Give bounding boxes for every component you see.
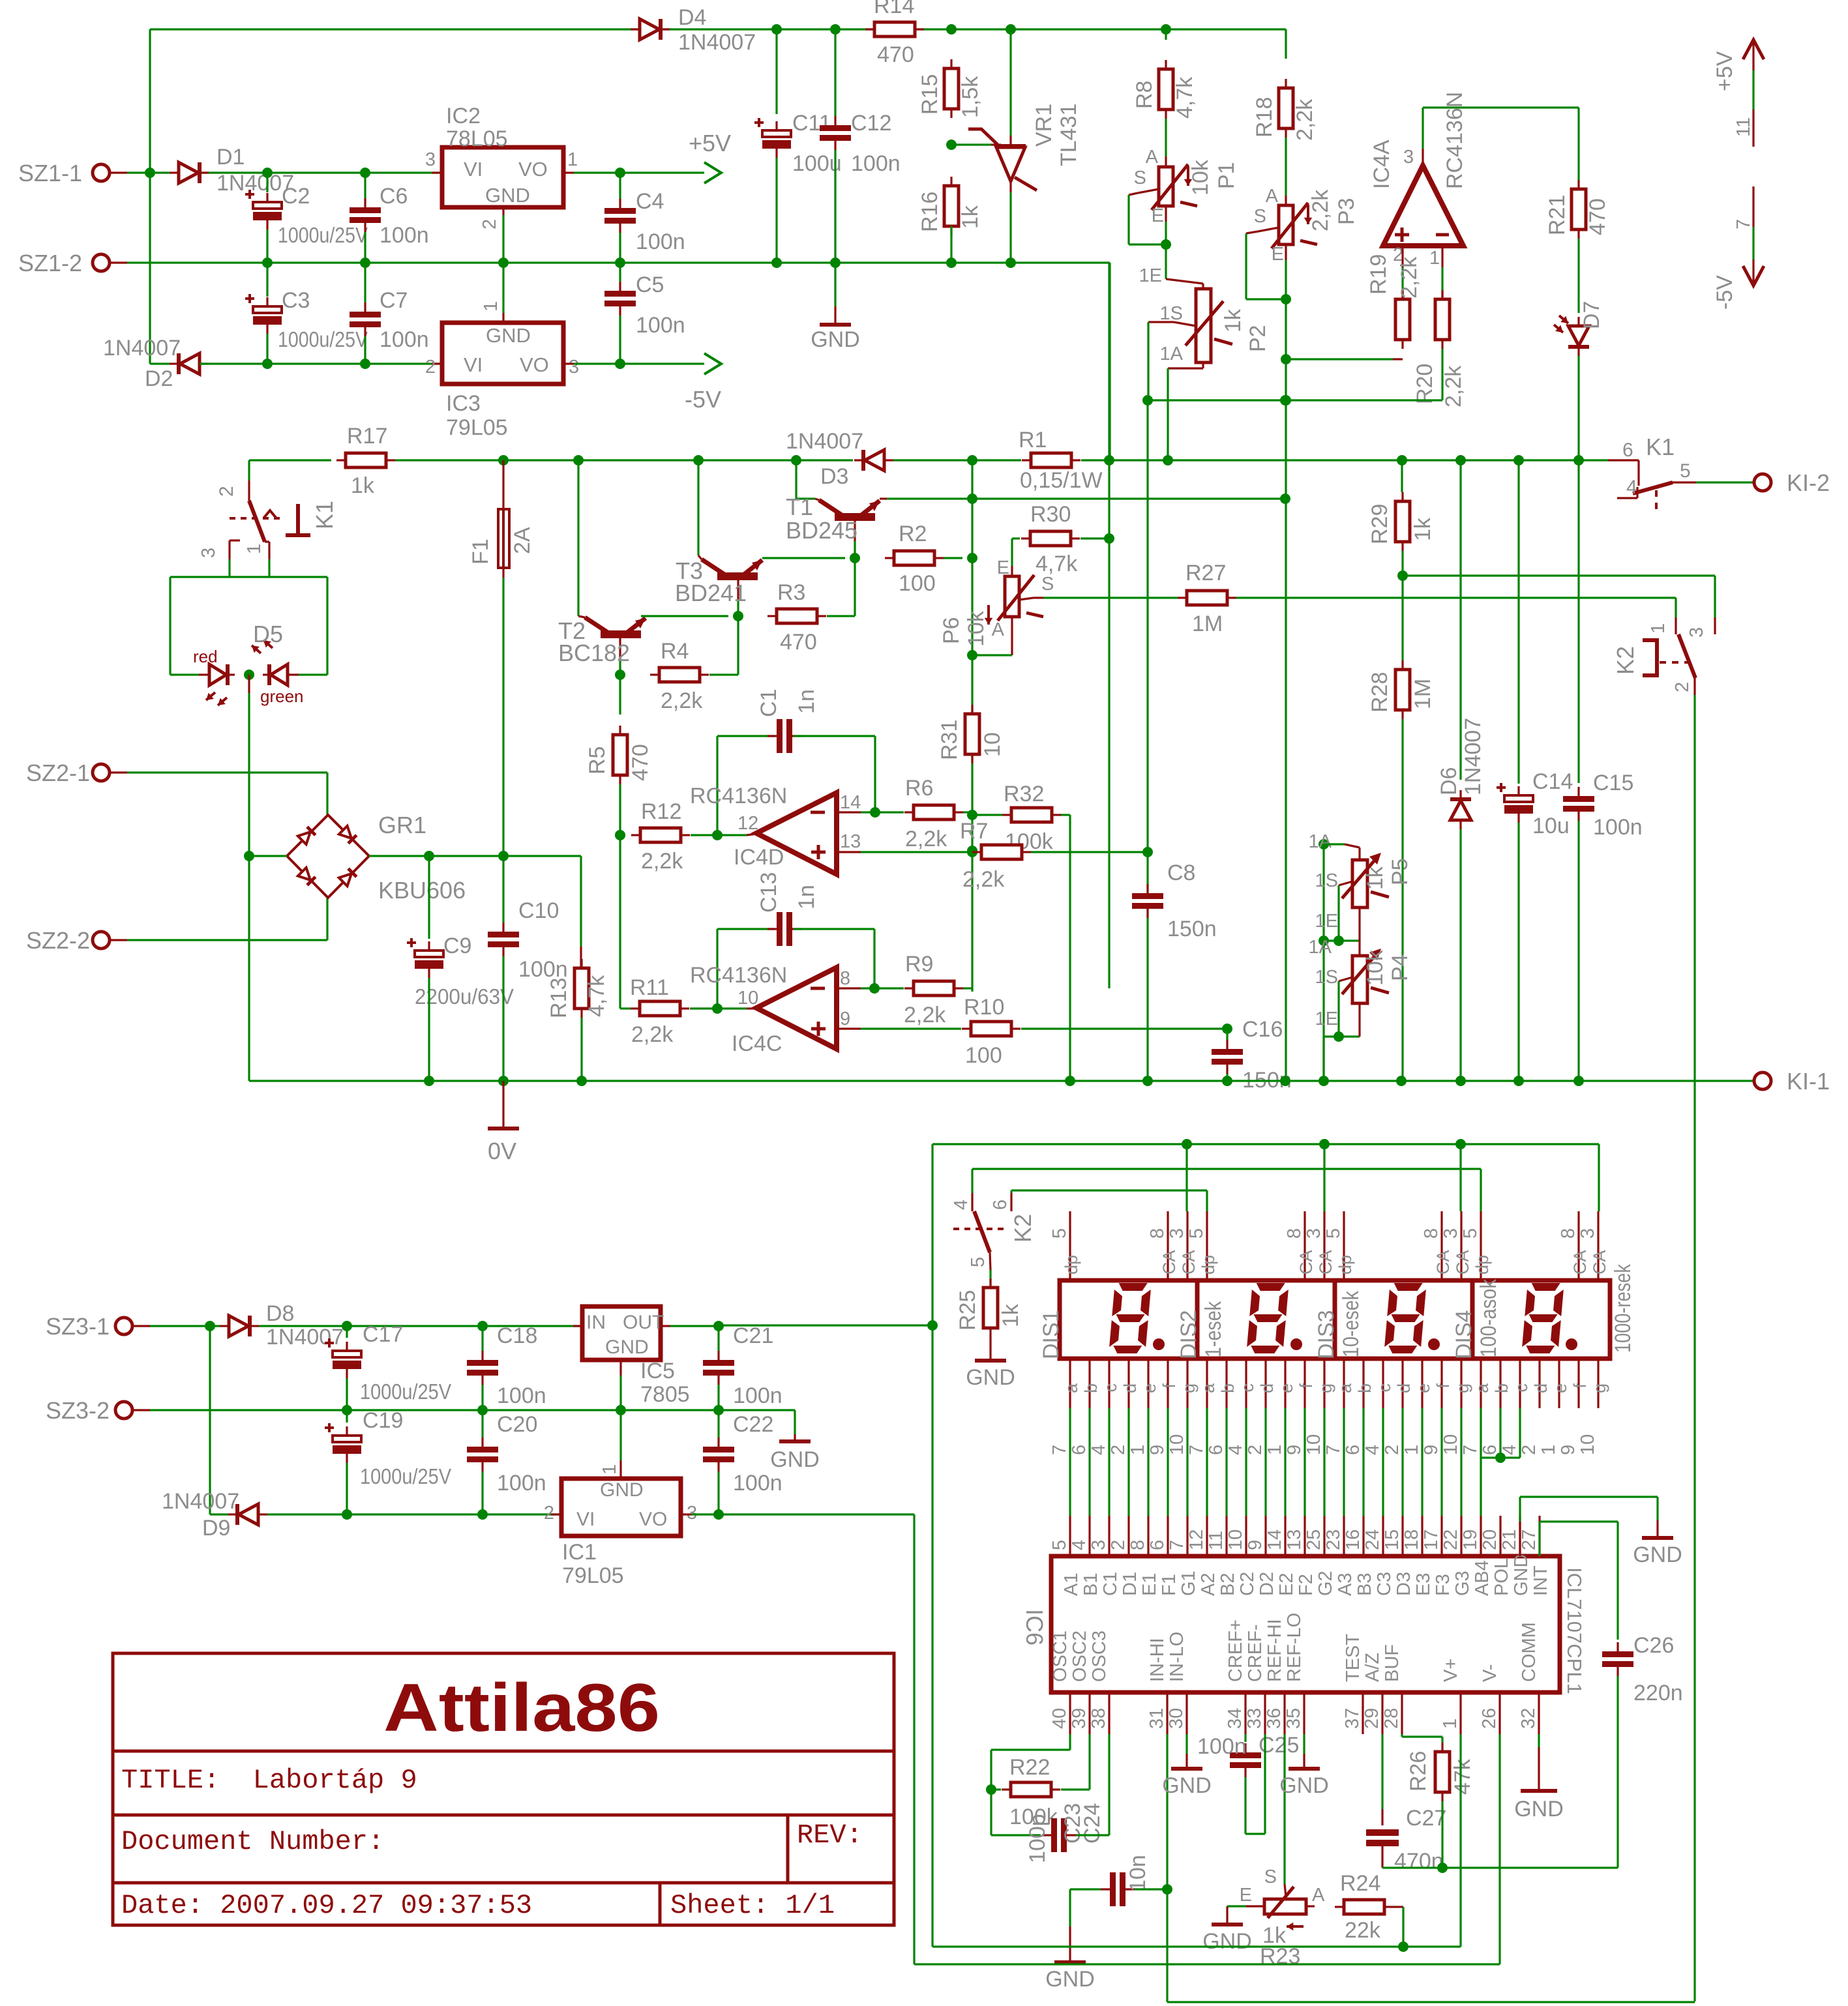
op-amp IC4A RC4136N bbox=[1383, 166, 1463, 246]
svg-text:2: 2 bbox=[425, 357, 436, 377]
wire bbox=[690, 1007, 747, 1009]
svg-text:22: 22 bbox=[1440, 1529, 1461, 1550]
svg-text:1: 1 bbox=[1538, 1445, 1559, 1455]
wire bbox=[620, 362, 704, 364]
svg-text:T1: T1 bbox=[786, 494, 813, 520]
wire bbox=[795, 460, 797, 499]
svg-text:30: 30 bbox=[1166, 1708, 1187, 1729]
capacitor C5 bbox=[604, 291, 636, 306]
junction bbox=[615, 168, 625, 178]
wire bbox=[1441, 349, 1443, 400]
wire bbox=[1236, 597, 1676, 598]
wire bbox=[1135, 1888, 1167, 1890]
svg-text:Attila86: Attila86 bbox=[383, 1670, 660, 1746]
wire bbox=[972, 654, 1012, 656]
wire bbox=[1401, 1734, 1403, 1737]
svg-text:R26: R26 bbox=[1406, 1751, 1431, 1792]
wire bbox=[502, 856, 504, 922]
svg-text:IC4A: IC4A bbox=[1369, 140, 1394, 189]
svg-text:IC4D: IC4D bbox=[734, 845, 784, 870]
svg-text:C21: C21 bbox=[733, 1323, 773, 1348]
junction bbox=[712, 830, 723, 840]
wire bbox=[1402, 1735, 1442, 1737]
svg-text:e: e bbox=[1551, 1383, 1570, 1393]
svg-text:E2: E2 bbox=[1276, 1573, 1297, 1596]
svg-text:1N4007: 1N4007 bbox=[678, 30, 756, 55]
svg-text:3: 3 bbox=[198, 548, 219, 558]
wire bbox=[127, 171, 170, 173]
svg-text:100n: 100n bbox=[851, 151, 901, 176]
capacitor C11 bbox=[762, 130, 791, 137]
svg-text:2,2k: 2,2k bbox=[904, 1003, 946, 1027]
wire bbox=[972, 1168, 1481, 1170]
resistor R1 bbox=[1031, 453, 1071, 467]
potentiometer R23 1k bbox=[1264, 1899, 1306, 1914]
wire bbox=[170, 673, 199, 675]
svg-text:C1: C1 bbox=[756, 689, 781, 717]
svg-text:R5: R5 bbox=[585, 746, 610, 774]
pin e 1 DIS1 bbox=[1147, 1359, 1149, 1408]
svg-text:2,2k: 2,2k bbox=[1441, 365, 1466, 407]
wire bbox=[428, 856, 430, 939]
diode D1 bbox=[179, 162, 198, 183]
+5V arrow bbox=[704, 162, 721, 183]
wire bbox=[1167, 368, 1169, 460]
junction bbox=[967, 494, 977, 504]
svg-text:1: 1 bbox=[567, 149, 578, 170]
svg-text:1E: 1E bbox=[1139, 265, 1162, 286]
junction bbox=[946, 140, 957, 150]
svg-text:1: 1 bbox=[1440, 1718, 1461, 1729]
svg-text:26: 26 bbox=[1479, 1708, 1500, 1729]
wire bbox=[481, 1410, 483, 1438]
svg-text:DIS1: DIS1 bbox=[1039, 1310, 1064, 1359]
wire bbox=[1108, 263, 1110, 988]
resistor R4 bbox=[659, 668, 700, 682]
resistor R7 bbox=[981, 845, 1022, 859]
svg-text:R22: R22 bbox=[1009, 1755, 1050, 1780]
wire bbox=[762, 557, 845, 559]
0V ground symbol bbox=[502, 1081, 504, 1127]
wire bbox=[1459, 1734, 1461, 1947]
wire bbox=[502, 263, 504, 313]
bridge rectifier GR1 KBU606 bbox=[287, 815, 369, 898]
svg-text:A1: A1 bbox=[1061, 1573, 1082, 1596]
svg-text:1: 1 bbox=[599, 1464, 620, 1475]
wire bbox=[169, 577, 171, 675]
capacitor C24 bbox=[1110, 1872, 1125, 1906]
svg-text:g: g bbox=[1590, 1383, 1609, 1393]
svg-text:9: 9 bbox=[1421, 1445, 1442, 1455]
wire bbox=[266, 334, 268, 364]
wire bbox=[1401, 576, 1403, 660]
svg-text:1S: 1S bbox=[1315, 967, 1338, 988]
svg-text:S: S bbox=[1041, 574, 1054, 595]
svg-text:4: 4 bbox=[1362, 1445, 1383, 1455]
wire bbox=[1147, 322, 1149, 400]
pin 30 IN-LO IC6 bbox=[1185, 1692, 1187, 1734]
capacitor C2 bbox=[253, 202, 282, 209]
svg-text:R15: R15 bbox=[917, 74, 942, 115]
wire bbox=[1069, 1889, 1071, 1926]
junction bbox=[1281, 294, 1291, 304]
svg-text:Document Number:: Document Number: bbox=[121, 1826, 384, 1857]
wire bbox=[481, 1326, 483, 1351]
resistor R19 bbox=[1395, 299, 1410, 340]
junction bbox=[342, 1321, 352, 1331]
pin 3 IC6 bbox=[1108, 1516, 1110, 1556]
junction bbox=[244, 851, 254, 861]
svg-text:1N4007: 1N4007 bbox=[103, 336, 181, 361]
svg-text:g: g bbox=[1453, 1383, 1472, 1393]
wire bbox=[1337, 885, 1339, 941]
wire bbox=[620, 171, 704, 173]
pin 9 IC6 bbox=[1264, 1516, 1266, 1556]
svg-text:8: 8 bbox=[1147, 1228, 1168, 1239]
resistor R12 bbox=[640, 828, 681, 842]
resistor R6 bbox=[914, 805, 954, 819]
wire bbox=[619, 173, 621, 199]
svg-text:40: 40 bbox=[1049, 1708, 1070, 1729]
junction bbox=[967, 810, 977, 820]
pin 28 BUF IC6 bbox=[1401, 1692, 1403, 1734]
resistor R30 bbox=[1030, 531, 1071, 546]
wire bbox=[1402, 1907, 1404, 1947]
resistor R21 bbox=[1572, 189, 1586, 229]
svg-text:c: c bbox=[1512, 1383, 1531, 1393]
wire bbox=[971, 812, 973, 817]
wire bbox=[717, 1385, 719, 1410]
svg-text:IC6: IC6 bbox=[1021, 1609, 1048, 1645]
terminal KI-1 bbox=[1754, 1072, 1771, 1089]
svg-text:VO: VO bbox=[520, 353, 549, 376]
svg-text:d: d bbox=[1531, 1383, 1551, 1393]
wire bbox=[481, 1385, 483, 1410]
svg-text:AB4: AB4 bbox=[1472, 1560, 1493, 1596]
svg-text:C20: C20 bbox=[497, 1412, 537, 1437]
pin dp 5 DIS2 bbox=[1206, 1211, 1208, 1280]
junction bbox=[498, 851, 509, 861]
svg-text:2,2k: 2,2k bbox=[641, 849, 683, 874]
svg-text:1000u/25V: 1000u/25V bbox=[278, 223, 368, 247]
svg-text:a: a bbox=[1062, 1383, 1081, 1393]
wire bbox=[1577, 356, 1579, 460]
svg-text:S: S bbox=[1134, 168, 1146, 188]
svg-text:1N4007: 1N4007 bbox=[162, 1489, 239, 1514]
diode D2 bbox=[180, 353, 200, 374]
wire bbox=[619, 675, 621, 715]
svg-text:BD241: BD241 bbox=[675, 580, 747, 606]
capacitor C17 bbox=[333, 1351, 361, 1357]
svg-text:DIS2: DIS2 bbox=[1176, 1310, 1201, 1359]
svg-text:K2: K2 bbox=[1612, 646, 1639, 675]
svg-text:G1: G1 bbox=[1178, 1571, 1199, 1596]
pin f 9 DIS4 bbox=[1577, 1359, 1579, 1408]
wire bbox=[170, 576, 327, 578]
7-segment display DIS4 bbox=[1472, 1280, 1610, 1359]
ground GND C12 bbox=[834, 306, 836, 323]
svg-text:OUT: OUT bbox=[623, 1312, 664, 1333]
svg-text:D1: D1 bbox=[216, 145, 245, 170]
pin CA 8 DIS4 bbox=[1577, 1211, 1579, 1280]
wire seg bbox=[1245, 1408, 1247, 1516]
svg-text:A/Z: A/Z bbox=[1362, 1653, 1383, 1682]
wire seg bbox=[1421, 1408, 1423, 1516]
svg-text:d: d bbox=[1394, 1383, 1414, 1393]
svg-text:9: 9 bbox=[1558, 1445, 1579, 1455]
wire seg bbox=[1382, 1408, 1384, 1516]
wire bbox=[267, 1513, 561, 1515]
pin 38 OSC3 IC6 bbox=[1108, 1692, 1110, 1734]
resistor R3 bbox=[777, 609, 817, 623]
pin 37 TEST IC6 bbox=[1362, 1692, 1364, 1734]
svg-text:11: 11 bbox=[1733, 117, 1754, 137]
pin 36 REF-HI IC6 bbox=[1283, 1692, 1285, 1734]
svg-text:GND: GND bbox=[1045, 1967, 1095, 1992]
wire bbox=[1127, 195, 1129, 244]
wire bbox=[1246, 298, 1286, 300]
svg-text:2,2k: 2,2k bbox=[905, 827, 947, 851]
wire bbox=[1714, 576, 1716, 617]
capacitor C15 bbox=[1563, 796, 1594, 812]
junction bbox=[1142, 847, 1153, 857]
junction bbox=[713, 1509, 724, 1520]
junction bbox=[1319, 1076, 1329, 1086]
wire bbox=[326, 577, 328, 675]
svg-text:-5V: -5V bbox=[685, 386, 721, 413]
wire bbox=[346, 1326, 348, 1338]
svg-text:S: S bbox=[1264, 1866, 1277, 1887]
svg-text:4,7k: 4,7k bbox=[1172, 76, 1197, 119]
svg-text:9: 9 bbox=[1284, 1445, 1305, 1455]
wire bbox=[709, 673, 728, 675]
svg-text:D1: D1 bbox=[1120, 1572, 1140, 1596]
junction bbox=[1222, 1024, 1232, 1034]
pin 29 A/Z IC6 bbox=[1381, 1692, 1383, 1734]
svg-text:5: 5 bbox=[1460, 1228, 1481, 1239]
svg-text:3: 3 bbox=[1167, 1228, 1187, 1239]
junction bbox=[615, 830, 625, 840]
ground GND C24 bbox=[1069, 1926, 1071, 1961]
wire bbox=[1441, 267, 1443, 292]
wire bbox=[1185, 1734, 1187, 1754]
svg-text:P2: P2 bbox=[1245, 325, 1270, 352]
junction bbox=[1455, 1076, 1466, 1086]
wire bbox=[266, 173, 268, 192]
terminal SZ1-1 bbox=[93, 164, 110, 181]
wire bbox=[991, 1748, 1070, 1750]
resistor R11 bbox=[640, 1001, 680, 1016]
wire bbox=[619, 316, 621, 364]
svg-text:470: 470 bbox=[877, 42, 914, 67]
pin d 2 DIS4 bbox=[1538, 1359, 1540, 1408]
pin e 1 DIS2 bbox=[1284, 1359, 1286, 1408]
wire bbox=[991, 1834, 1041, 1836]
voltage regulator IC1 79L05 bbox=[561, 1479, 681, 1536]
svg-text:R6: R6 bbox=[905, 776, 933, 801]
svg-text:10: 10 bbox=[1577, 1434, 1598, 1455]
svg-text:KI-1: KI-1 bbox=[1787, 1068, 1830, 1095]
svg-text:+5V: +5V bbox=[689, 130, 731, 156]
svg-text:R30: R30 bbox=[1030, 502, 1071, 527]
wire bbox=[346, 1410, 348, 1423]
svg-text:f: f bbox=[1433, 1383, 1453, 1389]
wire bbox=[716, 929, 718, 1009]
svg-text:2,2k: 2,2k bbox=[1397, 256, 1422, 299]
svg-text:VI: VI bbox=[464, 353, 483, 376]
junction bbox=[1161, 239, 1171, 250]
svg-text:TITLE: Labortáp 9: TITLE: Labortáp 9 bbox=[121, 1765, 417, 1796]
svg-text:dp: dp bbox=[1335, 1255, 1355, 1275]
junction bbox=[946, 258, 957, 268]
svg-text:GND: GND bbox=[1162, 1773, 1212, 1798]
junction bbox=[850, 553, 860, 563]
svg-text:10n: 10n bbox=[1125, 1855, 1150, 1892]
svg-text:GR1: GR1 bbox=[378, 812, 426, 838]
svg-text:TEST: TEST bbox=[1343, 1634, 1364, 1682]
wire bbox=[1244, 1734, 1246, 1742]
wire bbox=[1459, 829, 1461, 1081]
wire bbox=[991, 1788, 1001, 1790]
pin 39 OSC2 IC6 bbox=[1088, 1692, 1090, 1734]
capacitor C6 bbox=[350, 207, 381, 223]
svg-text:P4: P4 bbox=[1388, 954, 1412, 981]
svg-text:IC4C: IC4C bbox=[732, 1031, 782, 1056]
svg-text:DIS4: DIS4 bbox=[1452, 1310, 1476, 1359]
pin 15 IC6 bbox=[1401, 1516, 1403, 1556]
junction bbox=[262, 359, 273, 369]
wire bbox=[796, 497, 815, 499]
svg-text:b: b bbox=[1492, 1383, 1512, 1393]
svg-text:OSC2: OSC2 bbox=[1069, 1630, 1090, 1682]
svg-text:31: 31 bbox=[1146, 1708, 1167, 1729]
svg-text:7: 7 bbox=[1186, 1445, 1207, 1455]
svg-text:6: 6 bbox=[1622, 439, 1633, 461]
svg-text:S: S bbox=[1254, 206, 1266, 227]
junction bbox=[1334, 1031, 1344, 1042]
op-amp IC4C RC4136N bbox=[756, 967, 837, 1049]
svg-text:C13: C13 bbox=[756, 872, 781, 913]
svg-text:IN-HI: IN-HI bbox=[1147, 1638, 1168, 1682]
junction bbox=[477, 1509, 488, 1520]
wire bbox=[364, 173, 366, 198]
svg-text:100n: 100n bbox=[380, 327, 429, 352]
wire bbox=[1598, 1144, 1600, 1211]
wire bbox=[326, 773, 328, 815]
svg-text:IC1: IC1 bbox=[562, 1540, 597, 1565]
pin d 2 DIS3 bbox=[1401, 1359, 1403, 1408]
junction bbox=[927, 1320, 938, 1331]
svg-text:1: 1 bbox=[1429, 248, 1440, 269]
junction bbox=[616, 1405, 626, 1415]
svg-text:C5: C5 bbox=[636, 273, 664, 297]
wire bbox=[1081, 459, 1608, 461]
svg-text:IN-LO: IN-LO bbox=[1167, 1632, 1187, 1682]
junction bbox=[145, 168, 155, 178]
resistor R20 bbox=[1435, 299, 1450, 340]
svg-text:6: 6 bbox=[990, 1200, 1011, 1210]
svg-text:R28: R28 bbox=[1367, 672, 1392, 713]
svg-text:10u: 10u bbox=[1532, 814, 1570, 838]
svg-text:DIS3: DIS3 bbox=[1314, 1310, 1339, 1359]
pin d 2 DIS2 bbox=[1264, 1359, 1266, 1408]
wire bbox=[299, 673, 327, 675]
svg-text:29: 29 bbox=[1362, 1708, 1382, 1729]
junction bbox=[771, 24, 782, 35]
svg-text:C10: C10 bbox=[518, 898, 559, 923]
wire bbox=[1693, 695, 1695, 2001]
pin CA 3 DIS3 bbox=[1460, 1211, 1462, 1280]
junction bbox=[477, 1321, 488, 1331]
pin b 6 DIS3 bbox=[1362, 1359, 1364, 1408]
svg-text:INT: INT bbox=[1530, 1565, 1551, 1596]
pin CA 3 DIS1 bbox=[1186, 1211, 1188, 1280]
svg-text:100n: 100n bbox=[497, 1471, 546, 1496]
pin 14 IC6 bbox=[1284, 1516, 1286, 1556]
svg-text:100: 100 bbox=[965, 1043, 1002, 1068]
svg-text:A3: A3 bbox=[1335, 1573, 1356, 1596]
svg-text:3: 3 bbox=[569, 357, 579, 377]
wire seg bbox=[1343, 1408, 1345, 1516]
svg-text:100n: 100n bbox=[636, 313, 685, 338]
junction bbox=[830, 258, 841, 268]
svg-text:19: 19 bbox=[1460, 1529, 1481, 1550]
svg-text:3: 3 bbox=[1403, 147, 1414, 168]
svg-text:4: 4 bbox=[1069, 1540, 1090, 1550]
wire bbox=[1459, 1144, 1461, 1211]
svg-text:20: 20 bbox=[1480, 1529, 1500, 1550]
capacitor C12 bbox=[820, 125, 851, 141]
svg-text:IC3: IC3 bbox=[446, 391, 481, 416]
svg-text:1000-resek: 1000-resek bbox=[1611, 1263, 1635, 1353]
wire bbox=[1264, 1734, 1266, 1834]
svg-text:470: 470 bbox=[1585, 198, 1610, 235]
svg-text:C3: C3 bbox=[282, 288, 310, 313]
junction bbox=[576, 1076, 587, 1086]
svg-text:A: A bbox=[1312, 1885, 1325, 1906]
wire bbox=[641, 615, 728, 617]
svg-text:1S: 1S bbox=[1315, 870, 1338, 891]
svg-text:8: 8 bbox=[1127, 1540, 1148, 1550]
svg-text:2,2k: 2,2k bbox=[962, 867, 1005, 892]
junction bbox=[244, 670, 254, 680]
svg-text:5: 5 bbox=[1186, 1228, 1207, 1239]
svg-text:24: 24 bbox=[1362, 1529, 1383, 1550]
svg-text:GND: GND bbox=[966, 1365, 1015, 1390]
wire bbox=[1617, 1676, 1618, 1868]
wire bbox=[1577, 239, 1579, 313]
svg-text:2: 2 bbox=[1382, 1445, 1403, 1455]
svg-text:c: c bbox=[1375, 1383, 1394, 1393]
wire +5 display bbox=[719, 1324, 932, 1326]
svg-text:3: 3 bbox=[1088, 1540, 1109, 1550]
wire bbox=[1206, 1190, 1208, 1211]
svg-text:e: e bbox=[1414, 1383, 1433, 1393]
svg-text:GND: GND bbox=[600, 1479, 644, 1501]
svg-text:RC4136N: RC4136N bbox=[690, 784, 787, 808]
pin 34 CREF+ IC6 bbox=[1244, 1692, 1246, 1734]
svg-text:b: b bbox=[1355, 1383, 1375, 1393]
wire bbox=[1011, 1189, 1207, 1191]
svg-text:470: 470 bbox=[628, 744, 653, 781]
svg-text:GND: GND bbox=[485, 184, 530, 207]
svg-text:E1: E1 bbox=[1139, 1573, 1160, 1596]
svg-text:B2: B2 bbox=[1217, 1573, 1238, 1596]
wire bbox=[1520, 1496, 1658, 1497]
junction bbox=[615, 258, 625, 268]
pin c 4 DIS1 bbox=[1108, 1359, 1110, 1408]
svg-text:CA: CA bbox=[1433, 1250, 1453, 1275]
